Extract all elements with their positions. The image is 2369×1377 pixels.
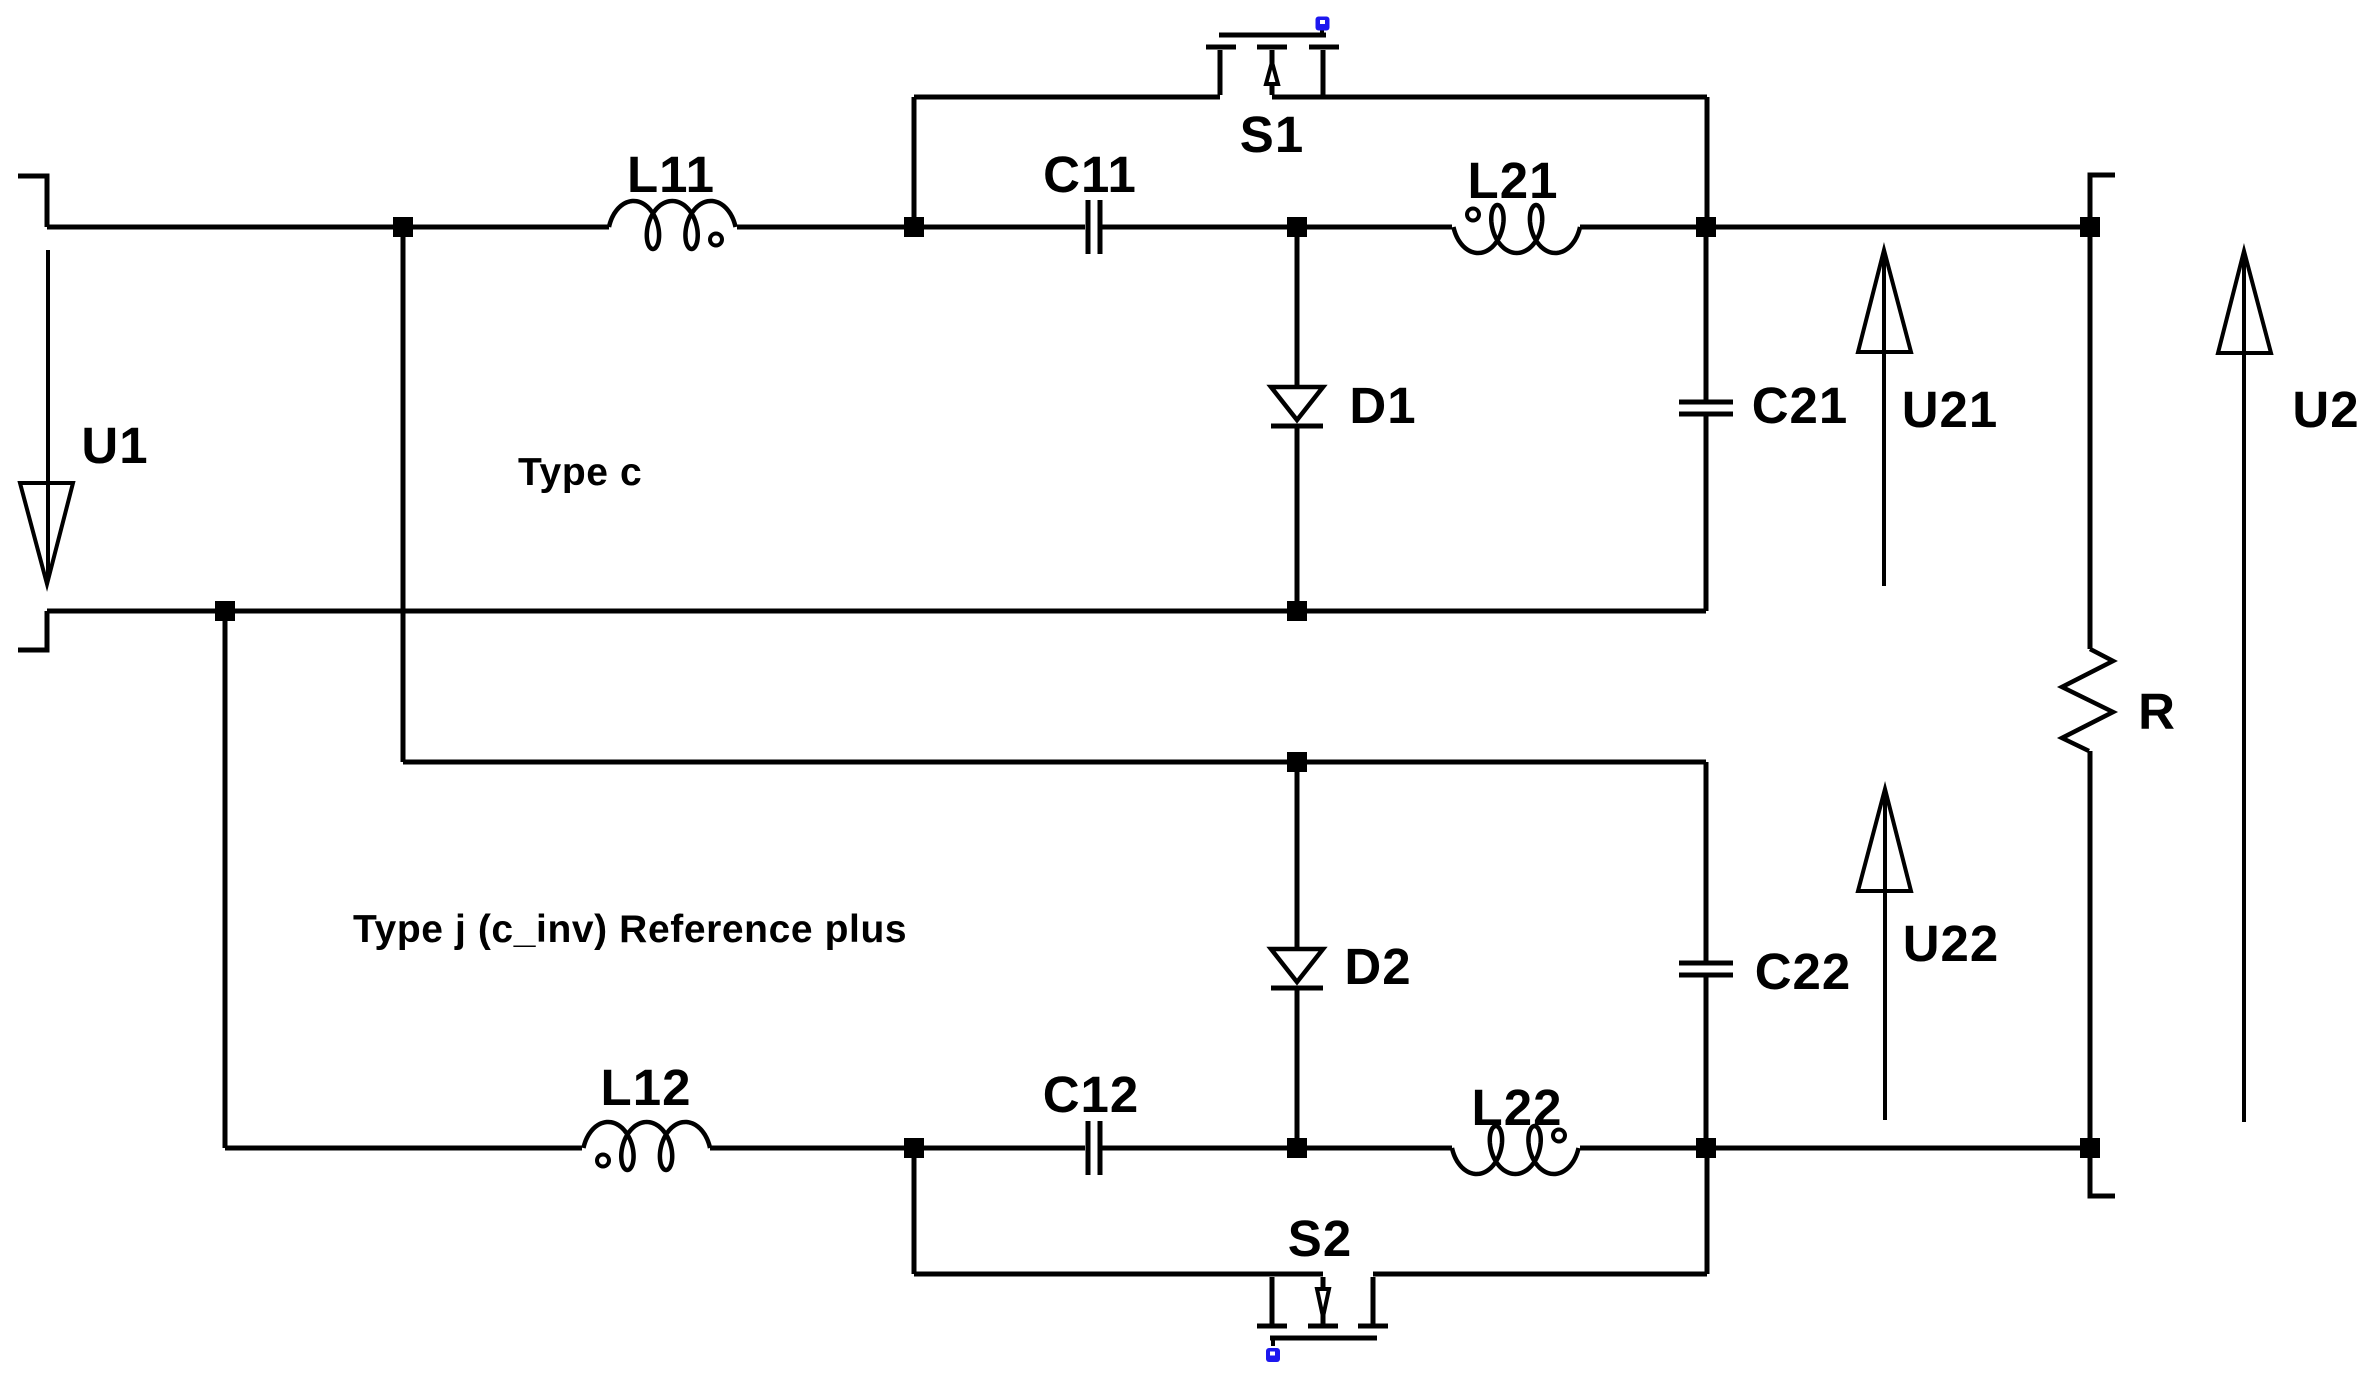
node top rail / D1 — [1287, 217, 1307, 237]
terminal bottom-left — [18, 611, 47, 650]
node bottom rail / D2 cathode — [1287, 1138, 1307, 1158]
terminal top-right — [2090, 175, 2115, 227]
arrow U2 (up) — [2218, 251, 2271, 1122]
wire top rail segment 2 — [737, 225, 1085, 230]
wire bottom rail segment 3 — [1102, 1146, 1452, 1151]
svg-text:U2: U2 — [2292, 381, 2359, 438]
wire S1 bypass right segment — [1272, 95, 1707, 100]
svg-text:C22: C22 — [1755, 943, 1852, 1000]
svg-text:L11: L11 — [627, 146, 715, 203]
svg-text:U1: U1 — [81, 417, 148, 474]
svg-text:L22: L22 — [1472, 1079, 1563, 1136]
svg-text:S1: S1 — [1240, 106, 1304, 163]
capacitor C11 — [1086, 200, 1091, 254]
svg-text:C21: C21 — [1752, 377, 1849, 434]
wire top rail segment 4 — [1580, 225, 2090, 230]
svg-text:U22: U22 — [1903, 915, 2000, 972]
node mid rail / D1 cathode — [1287, 601, 1307, 621]
node bottom rail / S2 dropper — [904, 1138, 924, 1158]
terminal bottom-right — [2090, 1148, 2115, 1196]
diode D2 — [1295, 762, 1300, 947]
inductor L21 — [1453, 205, 1580, 253]
svg-text:D1: D1 — [1349, 377, 1416, 434]
transistor S2 — [1257, 1277, 1388, 1346]
inductor L12 — [583, 1122, 710, 1170]
svg-text:D2: D2 — [1344, 938, 1411, 995]
svg-text:Type j (c_inv) Reference plus: Type j (c_inv) Reference plus — [353, 908, 907, 951]
node top rail / lower-cell branch — [393, 217, 413, 237]
inductor L11 — [609, 201, 736, 249]
wire S2 dropper — [912, 1148, 917, 1274]
wire bottom rail segment 2 — [710, 1146, 1085, 1151]
wire bottom rail segment 1 — [225, 1146, 582, 1151]
svg-text:C12: C12 — [1043, 1066, 1140, 1123]
node lower-cell rail / D2 — [1287, 752, 1307, 772]
node bottom rail / C22+S2 — [1696, 1138, 1716, 1158]
wire left branch down to bottom rail — [223, 611, 228, 1148]
gate terminal blue square S1 — [1316, 17, 1330, 31]
terminal top-left — [18, 176, 47, 227]
wire top rail segment 3 — [1102, 225, 1452, 230]
svg-text:U21: U21 — [1902, 381, 1999, 438]
svg-text:Type c: Type c — [518, 451, 642, 494]
diode D1 — [1295, 227, 1300, 385]
svg-text:C11: C11 — [1043, 146, 1137, 203]
wire S1 bypass down to node — [1705, 97, 1710, 227]
arrow U21 (up) — [1858, 250, 1911, 586]
arrow U22 (up) — [1858, 789, 1911, 1120]
svg-text:R: R — [2138, 683, 2176, 740]
wire S2 bypass left segment — [914, 1272, 1323, 1277]
node mid rail / left branch — [215, 601, 235, 621]
wire S2 bypass up to node — [1705, 1148, 1710, 1274]
wire middle rail — [47, 609, 1706, 614]
svg-text:L21: L21 — [1468, 152, 1559, 209]
capacitor C12 — [1086, 1121, 1091, 1175]
capacitor C22 — [1704, 762, 1709, 961]
node top rail / R — [2080, 217, 2100, 237]
node top rail / S1 riser — [904, 217, 924, 237]
svg-text:S2: S2 — [1288, 1210, 1352, 1267]
node top rail / C21+S1 — [1696, 217, 1716, 237]
wire lower-cell top rail — [403, 760, 1706, 765]
gate terminal blue square S2 — [1266, 1348, 1280, 1362]
wire S2 bypass right segment — [1373, 1272, 1707, 1277]
wire S1 bypass left segment — [914, 95, 1220, 100]
wire bottom rail segment 4 — [1580, 1146, 2090, 1151]
capacitor C21 — [1704, 227, 1709, 400]
arrow U1 (down) — [20, 250, 73, 584]
node bottom rail / R — [2080, 1138, 2100, 1158]
wire S1 riser — [912, 97, 917, 227]
svg-text:L12: L12 — [601, 1059, 692, 1116]
wire top rail segment 1 — [47, 225, 609, 230]
wire branch from top rail down to lower-cell rail — [401, 227, 406, 762]
inductor L22 — [1452, 1126, 1579, 1174]
transistor S1 — [1206, 29, 1339, 95]
resistor R — [2088, 227, 2093, 649]
